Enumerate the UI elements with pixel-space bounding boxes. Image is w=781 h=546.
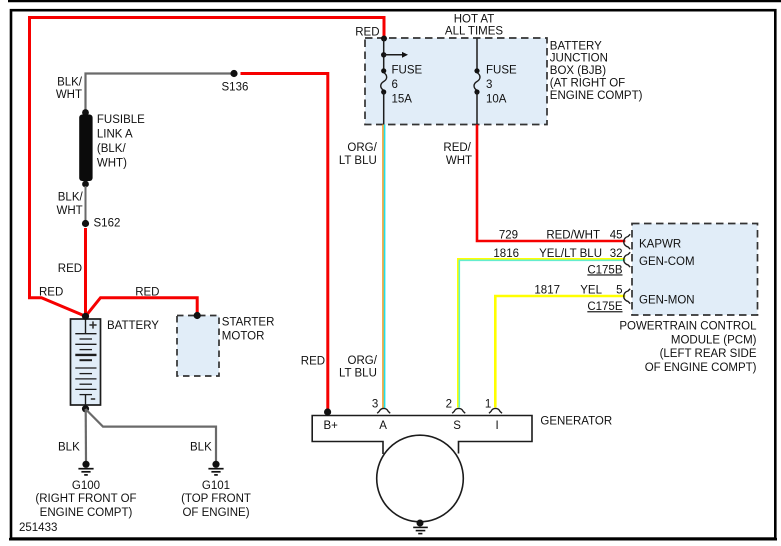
fusible link A xyxy=(82,109,89,116)
svg-text:(AT RIGHT OF: (AT RIGHT OF xyxy=(550,78,625,90)
svg-text:FUSIBLE: FUSIBLE xyxy=(97,114,145,126)
svg-text:ENGINE COMPT): ENGINE COMPT) xyxy=(40,507,133,519)
svg-text:RED: RED xyxy=(58,263,82,275)
svg-text:LT BLU: LT BLU xyxy=(339,368,377,380)
generator body circle xyxy=(377,435,464,522)
battery junction box (BJB) xyxy=(365,38,547,125)
svg-text:729: 729 xyxy=(499,229,518,241)
svg-text:YEL: YEL xyxy=(580,285,602,297)
wire YEL/LT BLU PCM GEN-COM to generator S xyxy=(458,259,626,408)
fuse 3 10A xyxy=(476,39,478,71)
svg-text:GENERATOR: GENERATOR xyxy=(540,416,612,428)
svg-text:B+: B+ xyxy=(324,420,339,432)
svg-text:251433: 251433 xyxy=(19,522,57,534)
svg-text:32: 32 xyxy=(610,248,623,260)
svg-text:WHT): WHT) xyxy=(97,157,127,169)
wire BLK/WHT fusible link to S162 xyxy=(85,186,87,221)
node generator B+ terminal xyxy=(324,408,331,415)
svg-text:LINK A: LINK A xyxy=(97,129,133,141)
svg-text:RED/: RED/ xyxy=(443,142,471,154)
wire RED battery positive to BJB (main feed) xyxy=(30,18,385,317)
junction node with feed arrow inside BJB xyxy=(381,52,386,57)
node S136 xyxy=(230,70,237,77)
node battery negative terminal xyxy=(82,405,89,412)
svg-text:5: 5 xyxy=(616,285,622,297)
svg-text:1817: 1817 xyxy=(534,285,560,297)
svg-text:STARTER: STARTER xyxy=(222,317,275,329)
svg-text:FUSE: FUSE xyxy=(486,65,517,77)
svg-text:2: 2 xyxy=(446,398,452,410)
svg-text:3: 3 xyxy=(486,79,492,91)
svg-text:ORG/: ORG/ xyxy=(348,355,378,367)
svg-text:S162: S162 xyxy=(94,218,121,230)
wire BLK/WHT from fusible link up to S136 xyxy=(86,74,232,114)
svg-text:BLK/: BLK/ xyxy=(57,77,83,89)
svg-text:POWERTRAIN CONTROL: POWERTRAIN CONTROL xyxy=(619,321,757,333)
svg-text:BLK/: BLK/ xyxy=(58,191,84,203)
svg-text:YEL/LT BLU: YEL/LT BLU xyxy=(539,248,602,260)
wire RED S136 to generator B+ xyxy=(241,74,328,411)
wire BLK battery negative to G100 xyxy=(85,409,88,461)
pin 2 connector arc at terminal S xyxy=(452,408,465,413)
svg-text:C175E: C175E xyxy=(587,301,622,313)
node S162 xyxy=(82,220,89,227)
fuse 6 15A xyxy=(381,68,386,73)
svg-text:RED: RED xyxy=(301,356,325,368)
wire RED S162 to battery positive xyxy=(84,228,87,316)
svg-text:1: 1 xyxy=(485,398,491,410)
wire (black) BJB entry down to fuse 6 xyxy=(383,39,385,71)
svg-text:10A: 10A xyxy=(486,93,507,105)
svg-text:S136: S136 xyxy=(222,82,249,94)
svg-text:ALL TIMES: ALL TIMES xyxy=(445,26,503,38)
svg-text:45: 45 xyxy=(610,229,623,241)
svg-text:RED: RED xyxy=(39,286,63,298)
battery xyxy=(71,319,101,405)
svg-text:RED: RED xyxy=(135,286,159,298)
wire ORG/LT BLU fuse 6 to generator A xyxy=(382,125,384,409)
svg-text:OF ENGINE): OF ENGINE) xyxy=(182,507,249,519)
ground G101 xyxy=(208,461,223,475)
svg-text:MODULE (PCM): MODULE (PCM) xyxy=(671,334,757,346)
svg-text:C175B: C175B xyxy=(587,264,622,276)
pin GEN-MON connector arc (pin 5) xyxy=(624,289,630,304)
svg-text:G101: G101 xyxy=(202,480,230,492)
svg-text:RED: RED xyxy=(355,27,379,39)
svg-text:GEN-MON: GEN-MON xyxy=(639,295,695,307)
svg-text:15A: 15A xyxy=(392,93,413,105)
svg-text:BATTERY: BATTERY xyxy=(107,320,159,332)
svg-text:(TOP FRONT: (TOP FRONT xyxy=(181,493,251,505)
svg-text:MOTOR: MOTOR xyxy=(222,331,265,343)
svg-text:A: A xyxy=(379,420,387,432)
svg-text:(BLK/: (BLK/ xyxy=(97,143,127,155)
ground G100 xyxy=(78,461,93,475)
svg-text:I: I xyxy=(496,420,499,432)
svg-text:WHT: WHT xyxy=(446,155,472,167)
generator terminal box xyxy=(312,416,532,455)
svg-text:HOT AT: HOT AT xyxy=(454,14,494,26)
node starter motor terminal xyxy=(194,312,201,319)
svg-text:WHT: WHT xyxy=(57,205,83,217)
node: red entry dot on BJB top edge xyxy=(381,36,387,42)
pin 3 connector arc at terminal A xyxy=(377,408,390,413)
svg-text:ORG/: ORG/ xyxy=(347,142,377,154)
node battery positive terminal xyxy=(82,313,89,320)
powertrain control module (PCM) box xyxy=(632,224,758,316)
svg-text:ENGINE COMPT): ENGINE COMPT) xyxy=(550,90,643,102)
svg-text:FUSE: FUSE xyxy=(392,65,423,77)
svg-text:KAPWR: KAPWR xyxy=(639,239,681,251)
svg-text:LT BLU: LT BLU xyxy=(339,155,377,167)
svg-text:BLK: BLK xyxy=(58,442,80,454)
svg-text:1816: 1816 xyxy=(493,248,519,260)
starter motor box xyxy=(177,316,219,377)
svg-text:GEN-COM: GEN-COM xyxy=(639,256,695,268)
generator case ground xyxy=(417,520,424,527)
svg-text:3: 3 xyxy=(372,399,378,411)
svg-text:JUNCTION: JUNCTION xyxy=(550,53,608,65)
pin KAPWR connector arc (pin 45) xyxy=(624,234,630,249)
pin GEN-COM connector arc (pin 32) xyxy=(624,252,630,267)
svg-text:(LEFT REAR SIDE: (LEFT REAR SIDE xyxy=(660,348,757,360)
svg-text:BOX (BJB): BOX (BJB) xyxy=(550,65,606,77)
svg-text:(RIGHT FRONT OF: (RIGHT FRONT OF xyxy=(35,493,136,505)
svg-text:BLK: BLK xyxy=(190,442,212,454)
svg-text:OF ENGINE COMPT): OF ENGINE COMPT) xyxy=(645,362,757,374)
wire RED/WHT fuse 3 to PCM KAPWR xyxy=(477,125,625,242)
svg-text:S: S xyxy=(453,420,461,432)
wire RED battery positive to starter motor xyxy=(86,298,198,317)
svg-text:G100: G100 xyxy=(72,480,100,492)
wire BLK battery negative to G101 xyxy=(86,409,217,461)
svg-text:6: 6 xyxy=(392,79,398,91)
svg-text:RED/WHT: RED/WHT xyxy=(546,229,600,241)
wire YEL PCM GEN-MON to generator I xyxy=(495,296,625,408)
svg-text:BATTERY: BATTERY xyxy=(550,40,602,52)
svg-text:WHT: WHT xyxy=(56,89,82,101)
pin 1 connector arc at terminal I xyxy=(489,408,502,413)
